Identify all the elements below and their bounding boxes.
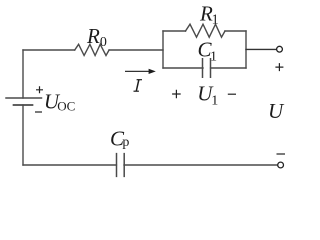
resistor R0 bbox=[75, 44, 109, 55]
resistor R1 bbox=[186, 24, 226, 37]
wire top-left horizontal bbox=[23, 49, 75, 51]
terminal circle bottom bbox=[278, 162, 284, 168]
svg-text:U1: U1 bbox=[197, 82, 218, 109]
wire output bbox=[246, 48, 277, 50]
output minus sign bbox=[277, 153, 286, 155]
wire R0 to box bbox=[109, 49, 163, 51]
svg-text:U: U bbox=[268, 99, 285, 123]
box top branch right bbox=[225, 30, 246, 32]
svg-text:R0: R0 bbox=[86, 24, 107, 50]
svg-text:C1: C1 bbox=[198, 38, 218, 65]
wire bottom right bbox=[124, 164, 278, 166]
svg-text:Cp: Cp bbox=[110, 127, 129, 151]
box right bar bbox=[245, 31, 247, 68]
battery U_OC long plate bbox=[6, 97, 42, 99]
label I bbox=[134, 80, 143, 92]
minus sign of U1 row bbox=[228, 93, 236, 95]
box bottom branch left bbox=[163, 67, 203, 69]
terminal circle top bbox=[277, 46, 283, 52]
wire bottom left bbox=[23, 164, 116, 166]
output plus sign bbox=[275, 63, 283, 71]
plus sign of U1 row bbox=[172, 90, 181, 99]
current arrow I bbox=[125, 69, 156, 74]
box left bar bbox=[162, 31, 164, 68]
svg-text:UOC: UOC bbox=[44, 90, 75, 114]
capacitor Cp plates bbox=[117, 154, 125, 177]
box top branch left bbox=[163, 30, 186, 32]
box bottom branch right bbox=[211, 67, 246, 69]
capacitor C1 plates bbox=[203, 59, 211, 77]
wire left vertical upper bbox=[22, 50, 24, 98]
battery plus sign bbox=[36, 86, 43, 93]
svg-text:R1: R1 bbox=[199, 2, 219, 28]
battery minus sign bbox=[35, 111, 42, 113]
battery U_OC short plate bbox=[14, 104, 33, 106]
wire left vertical lower bbox=[22, 105, 24, 165]
